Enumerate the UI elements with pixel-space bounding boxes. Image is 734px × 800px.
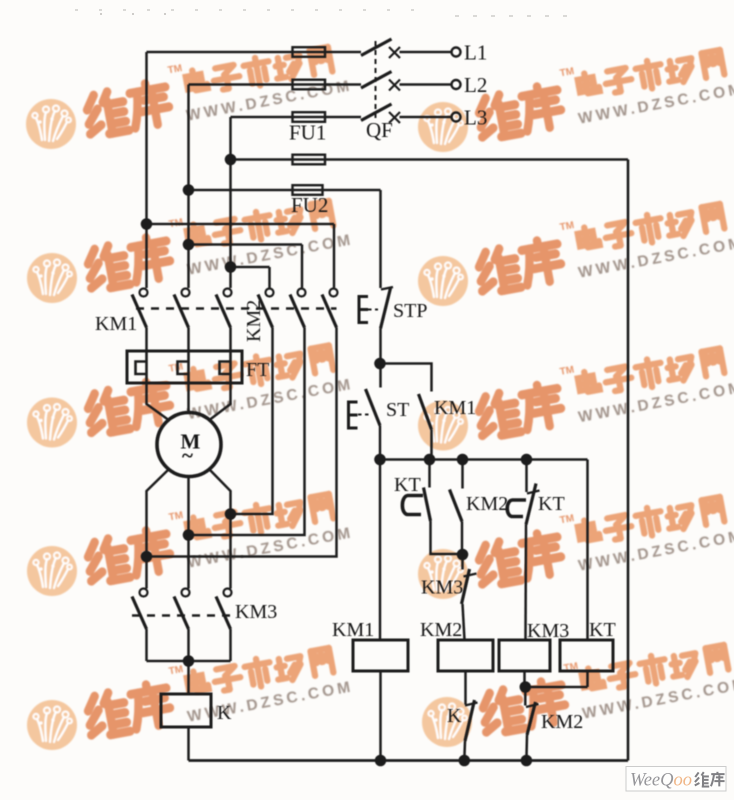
thermal relay FT box bbox=[127, 351, 242, 383]
contactor KM1 pole 1 bbox=[140, 289, 148, 297]
wire bus to KT coil bbox=[586, 460, 589, 641]
fuse FU2 element 2 bbox=[293, 185, 323, 195]
wire QF to L1 terminal bbox=[400, 51, 452, 54]
svg-text:~: ~ bbox=[182, 444, 193, 468]
wire control feed row from L3 bbox=[231, 158, 629, 161]
control bus node row bbox=[380, 458, 588, 461]
terminal L2 bbox=[452, 80, 461, 89]
contact KT delayed close bbox=[428, 460, 431, 488]
svg-text:STP: STP bbox=[393, 300, 427, 322]
wire L1 phase rail bbox=[147, 52, 362, 288]
svg-text:KM2: KM2 bbox=[420, 619, 462, 641]
pushbutton STP (stop, NC) bbox=[381, 287, 393, 290]
wire L3 phase rail bbox=[231, 117, 362, 288]
svg-text:L3: L3 bbox=[464, 106, 487, 130]
pushbutton ST (start, NO) bbox=[366, 389, 381, 426]
coil KM3 bbox=[499, 640, 550, 671]
contactor KM3 pole 3 bbox=[224, 589, 232, 597]
wire crossover B (L2 to KM2 pole 2) bbox=[189, 245, 303, 288]
wire motor to lower phase rails bbox=[147, 470, 231, 589]
wire KM1 coil to bus bbox=[379, 671, 382, 761]
wire QF to L2 terminal bbox=[400, 83, 452, 86]
scan noise dashes (decorative) bbox=[75, 10, 568, 16]
svg-text:L1: L1 bbox=[464, 41, 487, 65]
node KM3 star point bbox=[184, 657, 193, 666]
contactor KM2 pole 3 bbox=[330, 289, 338, 297]
svg-text:KM1: KM1 bbox=[95, 313, 137, 335]
fuse FU1 element 1 bbox=[293, 47, 326, 57]
svg-text:ST: ST bbox=[386, 399, 409, 421]
contactor KM2 pole 1 bbox=[266, 289, 274, 297]
wire crossover A (L1 to KM2 pole 3) bbox=[147, 224, 335, 288]
svg-text:KM2: KM2 bbox=[541, 711, 583, 733]
svg-text:L2: L2 bbox=[464, 73, 487, 97]
svg-text:FU1: FU1 bbox=[289, 121, 326, 145]
svg-text:KM3: KM3 bbox=[421, 577, 463, 599]
terminal L1 bbox=[452, 48, 461, 57]
fuse FU2 element 1 bbox=[293, 155, 326, 165]
contact KT delayed open NC bbox=[525, 460, 528, 493]
svg-text:KT: KT bbox=[589, 619, 616, 641]
breaker QF pole 2 bbox=[361, 72, 392, 89]
svg-text:KM2: KM2 bbox=[243, 300, 265, 342]
node KM2/motor junction 1 bbox=[226, 510, 235, 519]
node A on L1 rail bbox=[142, 220, 151, 229]
contactor KM2 pole 2 bbox=[298, 289, 306, 297]
svg-text:KM2: KM2 bbox=[466, 493, 508, 515]
contact KM3 NC interlock bbox=[461, 555, 464, 570]
contactor linkage (dashed) bbox=[136, 307, 337, 309]
svg-text:FU2: FU2 bbox=[291, 193, 328, 217]
svg-text:KM3: KM3 bbox=[527, 620, 569, 642]
FT heater element 1 bbox=[136, 351, 147, 383]
contact KM2 aux NO bbox=[461, 460, 464, 489]
svg-text:K: K bbox=[217, 702, 232, 724]
wire star point to K bbox=[187, 661, 190, 694]
fuse FU1 element 2 bbox=[293, 80, 326, 90]
contactor KM1 pole 2 bbox=[182, 289, 190, 297]
node below KM2 aux bbox=[458, 550, 467, 559]
svg-text:QF: QF bbox=[366, 118, 393, 142]
wire FT to motor bbox=[147, 383, 231, 420]
wire KM3/KT coil bottoms joined bbox=[525, 671, 588, 687]
svg-text:KT: KT bbox=[394, 474, 421, 496]
terminal L3 bbox=[452, 113, 461, 122]
node C on L3 rail bbox=[226, 263, 235, 272]
wire QF to L3 terminal bbox=[400, 116, 452, 119]
node B on L2 rail bbox=[184, 240, 193, 249]
coil KM1 bbox=[353, 640, 408, 671]
transformer K box bbox=[161, 694, 211, 727]
svg-text:FT: FT bbox=[246, 359, 269, 381]
bottom bus N bbox=[189, 759, 629, 762]
wire STP to ST bbox=[379, 329, 382, 388]
wire KM2 pole 1 output bbox=[231, 328, 273, 515]
wire L2 phase rail bbox=[189, 85, 362, 289]
wire crossover C (L3 to KM2 pole 1) bbox=[231, 267, 270, 288]
coil KT bbox=[560, 640, 613, 671]
svg-text:KT: KT bbox=[538, 493, 565, 515]
contact KM1 aux (self hold) bbox=[380, 364, 432, 392]
wire KM2 pole 3 output bbox=[147, 328, 337, 557]
wire KM2 pole 2 output bbox=[189, 328, 305, 536]
svg-text:K: K bbox=[447, 705, 462, 727]
motor M bbox=[157, 413, 221, 477]
right rail from FU2 bbox=[627, 160, 630, 761]
wire control feed row from L2 bbox=[189, 190, 381, 288]
svg-text:WeeQoo: WeeQoo bbox=[630, 771, 692, 791]
contactor KM3 pole 1 bbox=[140, 589, 148, 597]
svg-text:KM1: KM1 bbox=[332, 619, 374, 641]
wire KM3 outputs joined bbox=[147, 629, 231, 661]
FT heater element 2 bbox=[178, 351, 189, 383]
node KM2/motor junction 2 bbox=[184, 531, 193, 540]
WeeQoo logo box bbox=[626, 767, 726, 792]
FT heater element 3 bbox=[220, 351, 231, 383]
node STP output bbox=[376, 359, 385, 368]
contact KM2 NC below KM3 coil bbox=[524, 687, 527, 706]
contactor KM3 linkage (dashed) bbox=[132, 614, 232, 616]
node tap on L2 rail bbox=[184, 186, 193, 195]
breaker QF pole 1 bbox=[361, 39, 392, 56]
svg-text:KM3: KM3 bbox=[235, 601, 277, 623]
node KM2/motor junction 3 bbox=[142, 552, 151, 561]
fuse FU1 element 3 bbox=[293, 112, 326, 122]
breaker QF linkage (dashed) bbox=[375, 41, 377, 118]
coil KM2 bbox=[438, 640, 493, 671]
svg-text:KM1: KM1 bbox=[434, 397, 476, 419]
wire bus to KM1 coil bbox=[379, 460, 382, 641]
contactor KM1 pole 3 bbox=[224, 289, 232, 297]
breaker QF pole 3 bbox=[361, 104, 392, 121]
node tap on L3 rail bbox=[226, 155, 235, 164]
contact K NO below KM2 coil bbox=[464, 671, 467, 705]
contactor KM3 pole 2 bbox=[182, 589, 190, 597]
wire K to bottom bus bbox=[187, 727, 190, 761]
wire KM1 outputs to FT bbox=[147, 328, 231, 352]
